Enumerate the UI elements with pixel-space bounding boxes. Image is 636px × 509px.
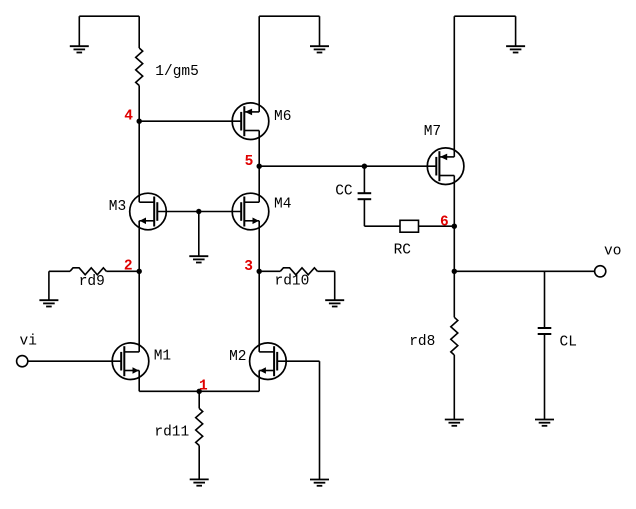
svg-text:5: 5 xyxy=(245,154,254,170)
wire RC to node 6 xyxy=(419,225,455,227)
ground (top left) xyxy=(70,16,89,52)
resistor RC xyxy=(400,220,419,232)
node M3-M4 gate junction xyxy=(196,209,201,214)
wire M6 source to node 5 xyxy=(258,131,260,167)
node 1 xyxy=(197,379,209,395)
svg-text:vo: vo xyxy=(604,244,621,260)
ground (top middle) xyxy=(310,16,329,52)
node 5 xyxy=(245,154,262,170)
svg-text:1: 1 xyxy=(199,379,208,395)
wire M2 gate right xyxy=(277,360,319,362)
transistor M4 xyxy=(232,193,269,230)
capacitor CC xyxy=(358,193,372,199)
svg-text:rd11: rd11 xyxy=(154,425,189,441)
wire rd9 to corner xyxy=(49,270,70,272)
terminal vo xyxy=(595,266,606,277)
wire M2 gate down to ground xyxy=(319,361,321,479)
wire M4 source to node 3 xyxy=(258,221,260,271)
terminal vi xyxy=(17,356,28,367)
label vo xyxy=(604,244,621,260)
node vo junction xyxy=(452,269,457,274)
wire junction to rd8 xyxy=(453,271,455,317)
svg-text:M4: M4 xyxy=(274,197,291,213)
svg-text:RC: RC xyxy=(394,242,412,258)
svg-text:1/gm5: 1/gm5 xyxy=(155,64,199,80)
svg-text:rd8: rd8 xyxy=(409,334,435,350)
wire node 5 to M7 gate xyxy=(259,165,436,167)
label vi xyxy=(20,334,37,350)
resistor rd8 xyxy=(451,317,458,355)
ground (rd11) xyxy=(190,479,209,485)
label rd11 xyxy=(154,425,189,441)
label rd10 xyxy=(275,274,310,290)
svg-text:rd9: rd9 xyxy=(79,274,105,290)
ground (rd9) xyxy=(39,300,58,306)
wire M3 source to node 2 xyxy=(138,221,140,271)
wire vi to M1 gate xyxy=(28,360,121,362)
ground (CL) xyxy=(535,420,554,426)
svg-text:6: 6 xyxy=(440,214,449,230)
wire M6 drain xyxy=(258,16,260,112)
svg-text:M6: M6 xyxy=(274,109,291,125)
resistor 1/gm5 xyxy=(136,48,143,86)
label M3 xyxy=(109,199,126,215)
wire M1 source down xyxy=(138,371,140,392)
capacitor CL xyxy=(538,328,552,334)
ground (M3/M4 gates) xyxy=(189,256,208,262)
wire top-left horizontal xyxy=(79,15,139,17)
label M4 xyxy=(274,197,291,213)
wire resistor to node 4 xyxy=(138,86,140,122)
wire CC to RC row xyxy=(364,199,400,226)
transistor M1 xyxy=(112,343,149,380)
svg-text:M2: M2 xyxy=(229,349,246,365)
svg-text:3: 3 xyxy=(244,259,253,275)
wire rd9 corner down xyxy=(48,271,50,300)
wire node 3 to rd10 xyxy=(259,270,280,272)
wire M4 drain to node 5 xyxy=(258,166,260,202)
node CC junction xyxy=(362,164,367,169)
wire rd10 corner down xyxy=(334,271,336,300)
ground (rd8) xyxy=(445,420,464,426)
transistor M6 xyxy=(232,103,269,140)
resistor rd10 xyxy=(280,268,317,275)
wire left column to resistor xyxy=(138,16,140,48)
wire node 2 down to M1 drain xyxy=(138,271,140,352)
label CC xyxy=(335,183,353,199)
wire M2 source down xyxy=(258,371,260,392)
wire node 1 row xyxy=(139,390,259,392)
svg-text:M1: M1 xyxy=(154,349,171,365)
wire node 4 down to M3 drain xyxy=(138,121,140,202)
wire vo row xyxy=(454,270,594,272)
svg-text:CC: CC xyxy=(335,183,353,199)
svg-text:M3: M3 xyxy=(109,199,126,215)
resistor rd9 xyxy=(70,268,106,275)
transistor M2 xyxy=(250,343,287,380)
ground (top right) xyxy=(506,16,525,52)
label 1/gm5 xyxy=(155,64,199,80)
node 6 xyxy=(440,214,457,230)
wire top-right horizontal xyxy=(454,15,515,17)
wire top-middle horizontal xyxy=(259,15,319,17)
node 2 xyxy=(124,258,142,274)
label M6 xyxy=(274,109,291,125)
resistor rd11 xyxy=(196,408,203,445)
svg-text:4: 4 xyxy=(124,109,133,125)
node 4 xyxy=(124,109,142,125)
label rd9 xyxy=(79,274,105,290)
wire node 1 to rd11 xyxy=(198,391,200,408)
label RC xyxy=(394,242,412,258)
wire M7 drain down xyxy=(453,176,455,272)
ground (rd10) xyxy=(325,300,344,306)
wire M3 gate to M4 gate xyxy=(157,211,241,213)
wire CL to ground xyxy=(544,334,546,420)
svg-text:vi: vi xyxy=(20,334,37,350)
node 3 xyxy=(244,259,262,275)
wire CC junction down xyxy=(363,166,365,193)
wire rd11 to ground xyxy=(198,446,200,480)
ground (M2 gate) xyxy=(310,480,329,486)
svg-text:rd10: rd10 xyxy=(275,274,310,290)
label M7 xyxy=(424,124,441,140)
wire M7 source xyxy=(453,16,455,157)
label rd8 xyxy=(409,334,435,350)
svg-text:CL: CL xyxy=(560,334,577,350)
transistor M3 xyxy=(130,193,167,230)
label CL xyxy=(560,334,577,350)
svg-text:M7: M7 xyxy=(424,124,441,140)
label M1 xyxy=(154,349,171,365)
wire node 2 to rd9 xyxy=(106,270,139,272)
wire CL branch xyxy=(544,271,546,328)
transistor M7 xyxy=(427,148,464,185)
wire node 3 down to M2 drain xyxy=(258,271,260,352)
wire gate junction down xyxy=(198,212,200,257)
label M2 xyxy=(229,349,246,365)
wire rd10 to corner xyxy=(318,270,335,272)
wire node 4 to M6 gate xyxy=(139,120,241,122)
wire rd8 to ground xyxy=(453,355,455,420)
